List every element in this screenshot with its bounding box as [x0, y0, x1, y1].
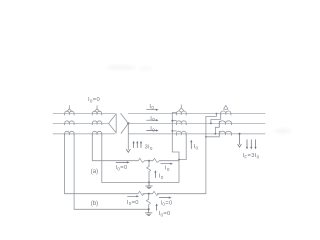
wire neutral stub row3: [172, 130, 176, 132]
svg-text:3I0: 3I0: [145, 144, 153, 150]
junction neutral row2: [171, 120, 173, 122]
ground loop a: [146, 182, 153, 188]
winding T2 phase-c: [92, 131, 102, 135]
svg-text:IF=3I0: IF=3I0: [243, 153, 260, 159]
3I0 up arrow 1: [133, 143, 135, 148]
junction hook2 line3: [215, 133, 217, 135]
junction delta tap on line1: [216, 113, 218, 115]
svg-text:I0: I0: [159, 173, 164, 179]
delta winding symbol: [109, 114, 117, 133]
winding T2 phase-a: [92, 111, 102, 115]
wire diagonal lower to node: [121, 123, 128, 133]
ground loop b: [145, 209, 152, 215]
wire delta tap bend: [206, 114, 217, 117]
junction loop a bottom: [148, 181, 150, 183]
wire phase line 3 right segment: [128, 133, 265, 135]
svg-text:I0: I0: [149, 104, 154, 110]
break loop a vertical: [147, 166, 151, 172]
wire phase line 2 right segment: [128, 122, 265, 124]
winding T4 delta phase-c: [219, 131, 231, 135]
3I0 up arrow 3: [140, 143, 142, 148]
winding T2 phase-b: [92, 121, 102, 125]
wire delta hook w3-left to long lead: [206, 131, 219, 137]
wire T3 right lead down: [179, 134, 186, 160]
wire leg T2-right to loop a bottom: [101, 134, 103, 183]
junction at 179,159.6: [178, 159, 180, 161]
junction fault point on line3: [239, 133, 241, 135]
fault down arrow open head: [239, 134, 241, 145]
wire T3 neutral vertical: [171, 113, 173, 152]
junction loop a top: [148, 160, 150, 162]
wire delta hook w1-left to line2: [211, 113, 221, 123]
arrow loop b center I0=0 up: [156, 206, 158, 211]
wye symbol above T1: [67, 106, 72, 112]
scan smudge artifact: [106, 66, 136, 70]
winding T4 delta phase-b: [219, 121, 231, 125]
junction hook3 long lead: [205, 136, 207, 138]
wire loop b top segments: [65, 193, 206, 195]
svg-text:I0=0: I0=0: [127, 200, 139, 206]
svg-text:I0: I0: [165, 165, 170, 171]
wire leg T1-left to loop b top: [64, 134, 66, 194]
wire phase line 1 left segment: [53, 113, 115, 115]
fault current arrow 3: [255, 140, 257, 148]
wire neutral stub row2: [172, 120, 176, 122]
wire delta hook w2-left to line3: [215, 121, 219, 134]
wire leg T2-left to loop a top: [91, 134, 93, 161]
junction loop b bottom: [148, 208, 150, 210]
junction hook1 line2: [210, 123, 212, 125]
wye symbol above T2: [95, 106, 100, 112]
wire 3I0 path down from node: [127, 123, 129, 149]
arrow loop a left I0=0: [116, 161, 128, 163]
svg-text:I0=0: I0=0: [116, 165, 128, 171]
wire phase line 3 left segment: [53, 133, 115, 135]
wire neutral stub row1: [172, 112, 176, 114]
svg-text:I0: I0: [194, 144, 199, 150]
winding T1 phase-a: [65, 111, 75, 115]
winding T4 delta phase-a: [221, 111, 231, 115]
winding T1 phase-b: [65, 121, 75, 125]
svg-text:I0=0: I0=0: [161, 200, 173, 206]
arrow loop b right I0=0: [159, 197, 169, 199]
wire leg T1-right to loop b bottom: [73, 134, 75, 210]
wire diagonal upper to node: [121, 114, 129, 124]
svg-text:I0: I0: [150, 126, 155, 132]
break loop a top 2: [153, 158, 160, 162]
wire loop a center vertical: [148, 161, 150, 183]
3I0 up arrow 2: [136, 143, 138, 148]
arrow loop a right I0: [161, 163, 171, 165]
break loop b top 2: [152, 191, 159, 195]
fault current arrow 2: [250, 140, 252, 148]
svg-text:(a): (a): [91, 169, 98, 175]
svg-text:(b): (b): [91, 201, 98, 207]
svg-text:I0: I0: [150, 116, 155, 122]
wire neutral bottom bend: [172, 152, 179, 161]
break loop b top 1: [138, 191, 145, 195]
winding T3 wye phase-c: [176, 131, 186, 135]
wire loop b bottom: [74, 208, 149, 210]
I0 up arrow at T3 neutral: [190, 142, 192, 149]
winding T3 wye phase-a: [176, 111, 186, 115]
svg-text:I0=0: I0=0: [88, 97, 100, 103]
winding T1 phase-c: [65, 131, 75, 135]
wire loop a right vertical: [178, 160, 180, 183]
delta symbol above T4: [224, 105, 229, 109]
wire delta long lead down to loop b: [205, 116, 207, 193]
fault current arrow 1: [246, 140, 248, 148]
I0 arrow line1: [147, 109, 157, 111]
wire phase line 2 left segment: [53, 122, 109, 124]
wire loop b center vertical: [148, 194, 150, 210]
junction neutral row3: [171, 130, 173, 132]
arrow loop b left I0=0: [128, 195, 138, 197]
svg-text:I0=0: I0=0: [159, 211, 171, 217]
break loop a top 1: [138, 158, 145, 162]
node junction: [127, 122, 129, 124]
I0 arrow line3: [147, 130, 157, 132]
wire loop a top segments: [92, 160, 179, 162]
wye symbol above T3: [179, 105, 184, 111]
arrow loop a center I0 up: [154, 172, 156, 177]
break loop b vertical: [146, 199, 150, 205]
open down arrowhead 3I0 path: [126, 149, 130, 152]
wire phase line 1 right segment: [128, 113, 265, 115]
junction loop b top: [148, 193, 150, 195]
winding T3 wye phase-b: [176, 121, 186, 125]
wire loop a bottom: [102, 181, 179, 183]
I0 arrow line2: [147, 119, 157, 121]
